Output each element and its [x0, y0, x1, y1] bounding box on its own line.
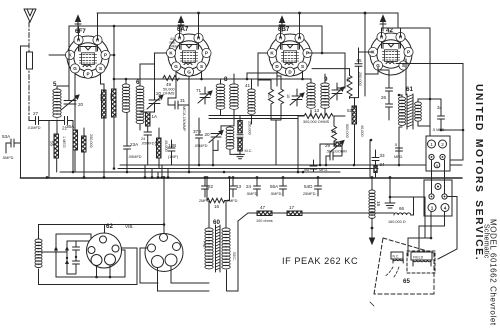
svg-text:500,000: 500,000 [345, 124, 349, 138]
buffer capacitor rail 2 [67, 241, 80, 274]
wire L5 top to AVC line [57, 26, 69, 100]
plate choke L8 [122, 84, 130, 112]
oscillator pickup coil L41 [248, 89, 256, 114]
svg-text:.5: .5 [394, 143, 397, 147]
terminal B8 [442, 194, 447, 199]
wire V3 heater to bus [281, 13, 300, 38]
svg-text:33: 33 [380, 153, 386, 158]
output transformer T61 secondary [415, 102, 422, 121]
terminal A1 [428, 140, 436, 148]
terminal A2 [439, 140, 447, 148]
svg-text:6: 6 [136, 79, 140, 86]
resistor R15 vertical [332, 124, 337, 143]
capacitor C54D [315, 178, 322, 196]
junction dots top bus [178, 12, 366, 55]
resistor R10 [279, 86, 284, 107]
wire detector B line [248, 212, 394, 214]
svg-text:56A: 56A [109, 93, 113, 100]
svg-text:45: 45 [154, 141, 159, 147]
resistor L66 [394, 213, 411, 215]
svg-text:14MH: 14MH [169, 45, 179, 49]
resistor R15 horizontal [304, 114, 333, 119]
svg-text:UNITED MOTORS SERVICE.: UNITED MOTORS SERVICE. [473, 84, 484, 261]
wire T61 leads [399, 95, 430, 165]
wire L18 leads [371, 178, 373, 238]
wire long drop x365 [364, 13, 366, 78]
antenna series condenser block [27, 52, 33, 69]
wire AVC line pair [209, 116, 345, 119]
svg-text:.5MEGOHM: .5MEGOHM [326, 150, 347, 154]
IF transformer T1 secondary [230, 84, 239, 109]
connector box A [426, 136, 450, 171]
svg-text:.5MFD.: .5MFD. [246, 192, 258, 196]
bus line y172 [60, 171, 340, 173]
svg-text:25MFD.: 25MFD. [303, 192, 317, 196]
heater wires cluster [145, 165, 168, 178]
wire V4 heater drop [382, 28, 401, 37]
svg-text:4: 4 [444, 205, 447, 210]
wire V3 diode pin [247, 71, 277, 79]
wire V4 pins down [378, 59, 463, 160]
svg-text:Schematic: Schematic [483, 224, 490, 259]
svg-text:60: 60 [213, 219, 220, 226]
terminal B6 [435, 184, 441, 190]
capacitor C96 [310, 160, 317, 172]
capacitor C30 [326, 152, 337, 165]
svg-text:SEC.: SEC. [232, 252, 236, 261]
resistor R12 [238, 121, 243, 134]
wire L66 to plug [411, 197, 414, 215]
svg-text:24: 24 [141, 137, 145, 141]
wire rectifier leads [140, 248, 209, 291]
svg-text:250,000: 250,000 [89, 134, 93, 148]
svg-text:96: 96 [304, 167, 310, 172]
terminal B7 [429, 194, 434, 199]
svg-text:10: 10 [286, 94, 290, 98]
svg-text:.05MFD: .05MFD [141, 142, 155, 146]
wire antenna ground branch [21, 46, 30, 178]
wire interstage line y79 [114, 78, 311, 80]
svg-text:34: 34 [437, 105, 443, 110]
svg-text:P: P [86, 71, 89, 76]
buffer capacitor rail 1 [67, 241, 91, 274]
svg-text:S: S [99, 66, 102, 71]
wire R11 R10 to bus [258, 76, 281, 165]
wire boxA to boxB [432, 160, 445, 194]
svg-text:OHMS: OHMS [163, 92, 175, 96]
svg-text:250,000: 250,000 [358, 72, 362, 86]
svg-text:47: 47 [260, 205, 266, 210]
svg-text:1A: 1A [152, 114, 159, 119]
RF coil L6 [136, 86, 144, 124]
trimmer C73 [330, 87, 344, 99]
svg-text:14B: 14B [168, 143, 176, 148]
trimmer C72 [290, 93, 304, 105]
wire R29 [320, 144, 342, 165]
svg-text:1: 1 [430, 142, 433, 147]
power transformer T60 core [216, 225, 221, 272]
svg-text:31: 31 [180, 98, 186, 103]
ground symbol [385, 178, 395, 208]
antenna coil L5 [53, 89, 61, 117]
svg-text:P: P [205, 51, 208, 56]
svg-text:20: 20 [205, 132, 211, 137]
svg-text:27: 27 [33, 111, 39, 116]
wire V1 cathode pin [49, 54, 66, 56]
svg-text:PRI.: PRI. [202, 241, 206, 248]
wire x365 to detector [364, 78, 366, 96]
IF transformer T1 primary [216, 84, 225, 109]
wire coil tap to buffer caps [42, 251, 67, 253]
svg-text:62: 62 [106, 223, 113, 230]
trimmer C20c [209, 131, 223, 143]
resistor R36A [73, 130, 78, 150]
svg-text:2: 2 [441, 142, 444, 147]
wire R15h ends [298, 116, 334, 172]
svg-text:52: 52 [347, 108, 353, 113]
svg-text:41: 41 [245, 83, 251, 88]
svg-text:P: P [104, 53, 107, 58]
resistor R47 [257, 211, 272, 216]
wire V1 heater to bus [79, 13, 98, 40]
svg-text:.5MFD.: .5MFD. [270, 192, 282, 196]
wire C34 [430, 99, 463, 130]
capacitor C56A [280, 178, 287, 196]
capacitor C21 [57, 117, 73, 173]
junction dots right [297, 12, 465, 174]
terminal B4 [441, 204, 449, 212]
power transformer T60 secondary [222, 228, 230, 269]
capacitor C13 [230, 178, 237, 197]
svg-text:160,000 Ω: 160,000 Ω [388, 220, 406, 224]
svg-text:54D: 54D [304, 184, 313, 189]
svg-text:24: 24 [246, 184, 252, 189]
terminal A4 [440, 154, 445, 159]
svg-text:5: 5 [436, 164, 438, 168]
wire vibrator outer loop [39, 248, 138, 285]
grid cap arrow V1 [75, 16, 81, 34]
svg-text:M.C.: M.C. [245, 149, 253, 153]
svg-text:100 ohms: 100 ohms [256, 219, 273, 223]
tube V3 6B7 [267, 33, 312, 76]
wire V2 center pin down [188, 76, 190, 172]
antenna lead-in wire [28, 22, 30, 121]
capacitor C22 [202, 178, 209, 197]
svg-text:N.C.: N.C. [393, 255, 400, 259]
svg-text:16: 16 [214, 204, 220, 209]
svg-text:22: 22 [208, 184, 214, 189]
arrow L18 tip [370, 238, 375, 244]
wire vibrator top loop [39, 225, 165, 240]
svg-text:18: 18 [376, 201, 381, 207]
capacitor C12 [237, 135, 243, 137]
svg-text:VIB.: VIB. [125, 224, 134, 229]
wire V2 heater to bus [180, 13, 199, 38]
svg-text:17: 17 [289, 205, 295, 210]
svg-text:1: 1 [431, 205, 434, 210]
wire C27 to bus [48, 121, 50, 178]
trimmer C20b [147, 95, 163, 109]
wire V3 cathode [258, 53, 268, 86]
svg-text:G: G [187, 69, 191, 74]
resistor R55 [54, 134, 59, 158]
svg-text:P: P [407, 50, 410, 55]
wire V2 cathode [155, 53, 167, 92]
resistor R17 [287, 211, 302, 216]
wire T2 leads [303, 71, 326, 116]
svg-text:S: S [200, 64, 203, 69]
svg-text:34: 34 [380, 162, 386, 167]
resistor R51 [347, 74, 352, 99]
svg-text:(1MF): (1MF) [168, 155, 179, 159]
svg-text:MFD.: MFD. [394, 155, 403, 159]
svg-text:13: 13 [236, 184, 242, 189]
terminal B1 [428, 204, 436, 212]
svg-text:55: 55 [50, 141, 55, 147]
svg-text:20: 20 [156, 91, 162, 96]
resistor R1A [146, 112, 151, 126]
label 44 PRI 14MH [169, 37, 179, 49]
ground under R12 [236, 151, 245, 159]
svg-text:13: 13 [314, 108, 320, 113]
svg-text:37B: 37B [193, 129, 201, 134]
capacitor C65 [355, 48, 362, 98]
svg-text:15: 15 [331, 129, 337, 134]
power transformer T60 primary [205, 228, 213, 269]
grid cap arrow V4 [380, 16, 386, 32]
capacitor C25 [396, 140, 403, 165]
svg-text:6F7: 6F7 [75, 28, 86, 35]
svg-text:66: 66 [399, 206, 405, 211]
svg-text:54B: 54B [99, 94, 103, 101]
choke L18 [369, 190, 375, 219]
capacitor C14B [168, 140, 175, 165]
svg-text:51: 51 [346, 77, 351, 83]
wire V3 grid pin down [276, 71, 278, 86]
capacitor C23A [124, 113, 131, 172]
wire T60 bottom right [227, 221, 239, 291]
IF transformer T2 primary [307, 83, 316, 108]
resistor R16 [207, 198, 225, 202]
capacitor C53A [6, 139, 21, 153]
capacitor C37B [196, 118, 203, 165]
capacitor C34 [438, 110, 445, 125]
tube V1 6F7 [65, 35, 110, 78]
svg-text:53A: 53A [2, 134, 11, 139]
svg-text:71: 71 [196, 88, 202, 93]
capacitor C27 [29, 117, 57, 125]
svg-text:.05MFD: .05MFD [194, 144, 208, 148]
antenna [24, 9, 36, 22]
svg-text:11: 11 [267, 94, 271, 98]
speaker flex leads [385, 267, 399, 278]
resistor R19 [82, 136, 87, 152]
svg-text:FIELD: FIELD [413, 256, 424, 260]
junction dots bottom [66, 176, 433, 278]
resistor R11 [269, 86, 274, 107]
svg-text:250,000: 250,000 [248, 121, 252, 135]
svg-text:56A: 56A [270, 184, 279, 189]
IF transformer T2 secondary [321, 83, 330, 108]
resistor R34b [374, 166, 377, 173]
oscillator coil L7 [226, 127, 234, 149]
svg-text:61: 61 [406, 86, 413, 93]
resistor R52 [352, 106, 357, 124]
wire V1 grid pin down [74, 73, 76, 112]
capacitor C31 [168, 101, 189, 109]
tube V4 42 [368, 32, 413, 75]
wire V4 grid pin [359, 48, 379, 74]
svg-text:.05MFD: .05MFD [128, 155, 142, 159]
vibrator socket 62 [87, 233, 122, 268]
svg-text:5: 5 [53, 81, 57, 88]
terminal A3 [429, 154, 434, 159]
wire speaker frame right [438, 197, 457, 260]
output transformer T61 core [407, 94, 413, 129]
resistor R49 [163, 76, 179, 81]
svg-text:23A: 23A [130, 142, 139, 147]
svg-text:49: 49 [166, 82, 172, 87]
trimmer C20a [61, 95, 79, 110]
wire T60 top leads [207, 178, 230, 228]
svg-text:S: S [301, 64, 304, 69]
svg-text:IF PEAK 262 KC: IF PEAK 262 KC [282, 256, 358, 266]
output transformer T61 primary [398, 97, 405, 125]
field coil dashed box [407, 251, 435, 273]
svg-text:8: 8 [224, 76, 228, 83]
bus line y165 [120, 164, 462, 166]
vibrator pin leads [97, 265, 111, 277]
polarity arrows [54, 246, 69, 264]
vibrator input choke L58 [35, 239, 42, 268]
resistor R12b [238, 139, 243, 152]
trimmer C71 [198, 91, 212, 103]
resistor R45 [157, 138, 162, 158]
svg-text:36A: 36A [66, 124, 75, 129]
wire T1 leads [202, 71, 235, 116]
svg-text:300,000 OHMS: 300,000 OHMS [303, 120, 330, 124]
wire L6 to V2 grid [140, 64, 155, 130]
svg-text:65: 65 [357, 58, 363, 63]
svg-text:26: 26 [381, 95, 387, 100]
wire vibrator feed diagonal [238, 213, 248, 221]
resistor R54B [102, 90, 107, 118]
wire V2 anode grid drop [168, 71, 176, 105]
svg-text:MFD.: MFD. [319, 168, 328, 172]
wire osc coil bottom to bus [212, 140, 214, 165]
svg-text:G: G [73, 66, 77, 71]
speaker outline dashed [374, 238, 434, 294]
wire B1 to speaker [390, 197, 431, 256]
svg-text:G: G [174, 64, 178, 69]
svg-text:20: 20 [78, 102, 84, 107]
svg-text:1 MEG: 1 MEG [62, 136, 66, 148]
capacitor C24 [254, 178, 261, 196]
svg-text:40,000: 40,000 [360, 125, 364, 137]
grid cap arrow V2 [178, 17, 184, 33]
svg-text:MICA 150MMF: MICA 150MMF [182, 106, 186, 132]
connector box B [424, 180, 452, 216]
grid cap arrow V3 [279, 17, 285, 33]
terminal A5 [434, 162, 440, 168]
main ground bus [21, 177, 463, 179]
tube V2 6A7 [166, 33, 211, 76]
top bus wire y26 [69, 26, 322, 53]
junction dots bus left [46, 25, 304, 179]
wire rectifier drop [163, 178, 165, 234]
wire B4 to speaker [419, 212, 445, 254]
resistor R56 [112, 89, 117, 117]
NC coil [391, 252, 403, 259]
svg-text:.01MFD: .01MFD [27, 126, 41, 130]
svg-text:65: 65 [403, 278, 410, 285]
wire vibrator inner loop [56, 234, 125, 277]
volume control R29 [334, 142, 342, 146]
capacitor C26 [386, 70, 393, 120]
top bus wire y13 [97, 13, 430, 136]
capacitor C33 [372, 150, 379, 166]
wire V3 plate to x345 [308, 53, 346, 88]
rectifier socket 84 [145, 234, 183, 272]
wire V1 screen pin down [101, 73, 105, 90]
bus line y168 [118, 168, 378, 170]
svg-text:.5MFD: .5MFD [2, 156, 14, 160]
speaker tick [370, 302, 374, 306]
